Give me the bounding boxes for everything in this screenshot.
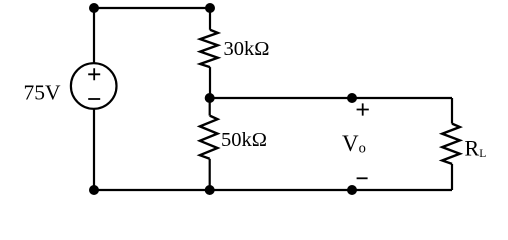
svg-text:75V: 75V: [24, 80, 62, 104]
wire bottom horizontal: [94, 189, 452, 191]
output polarity plus sign: [357, 103, 369, 115]
wire middle branch lower lead: [209, 98, 211, 116]
wire top horizontal: [94, 7, 210, 9]
resistor RL zigzag: [442, 124, 460, 164]
node junction dot top-left: [89, 3, 99, 13]
wire middle branch to bottom node: [209, 159, 211, 190]
node junction dot bottom-middle: [205, 185, 215, 195]
node junction dot output +: [347, 93, 357, 103]
wire left vertical lower (source bottom lead): [93, 109, 95, 190]
resistor R 50k zigzag: [200, 116, 218, 159]
node junction dot top-middle: [205, 3, 215, 13]
svg-text:RL: RL: [465, 135, 487, 160]
resistor R 30k zigzag: [200, 30, 218, 67]
wire right vertical lower (RL bottom lead): [451, 164, 453, 190]
output polarity minus sign: [357, 177, 368, 179]
source polarity plus sign: [88, 68, 100, 80]
node junction dot output -: [347, 185, 357, 195]
svg-text:30kΩ: 30kΩ: [224, 38, 270, 60]
svg-text:50kΩ: 50kΩ: [221, 129, 267, 151]
node junction dot middle (between 30k and 50k): [205, 93, 215, 103]
source polarity minus sign: [88, 98, 100, 100]
wire left vertical upper (source top lead): [93, 8, 95, 64]
wire right vertical upper (RL top lead): [451, 98, 453, 124]
wire middle branch top lead: [209, 8, 211, 30]
node junction dot bottom-left: [89, 185, 99, 195]
wire middle horizontal (output top): [210, 97, 452, 99]
svg-text:Vo: Vo: [342, 131, 366, 156]
voltage source V1 75V circle: [71, 63, 117, 109]
wire middle branch between resistors: [209, 67, 211, 98]
